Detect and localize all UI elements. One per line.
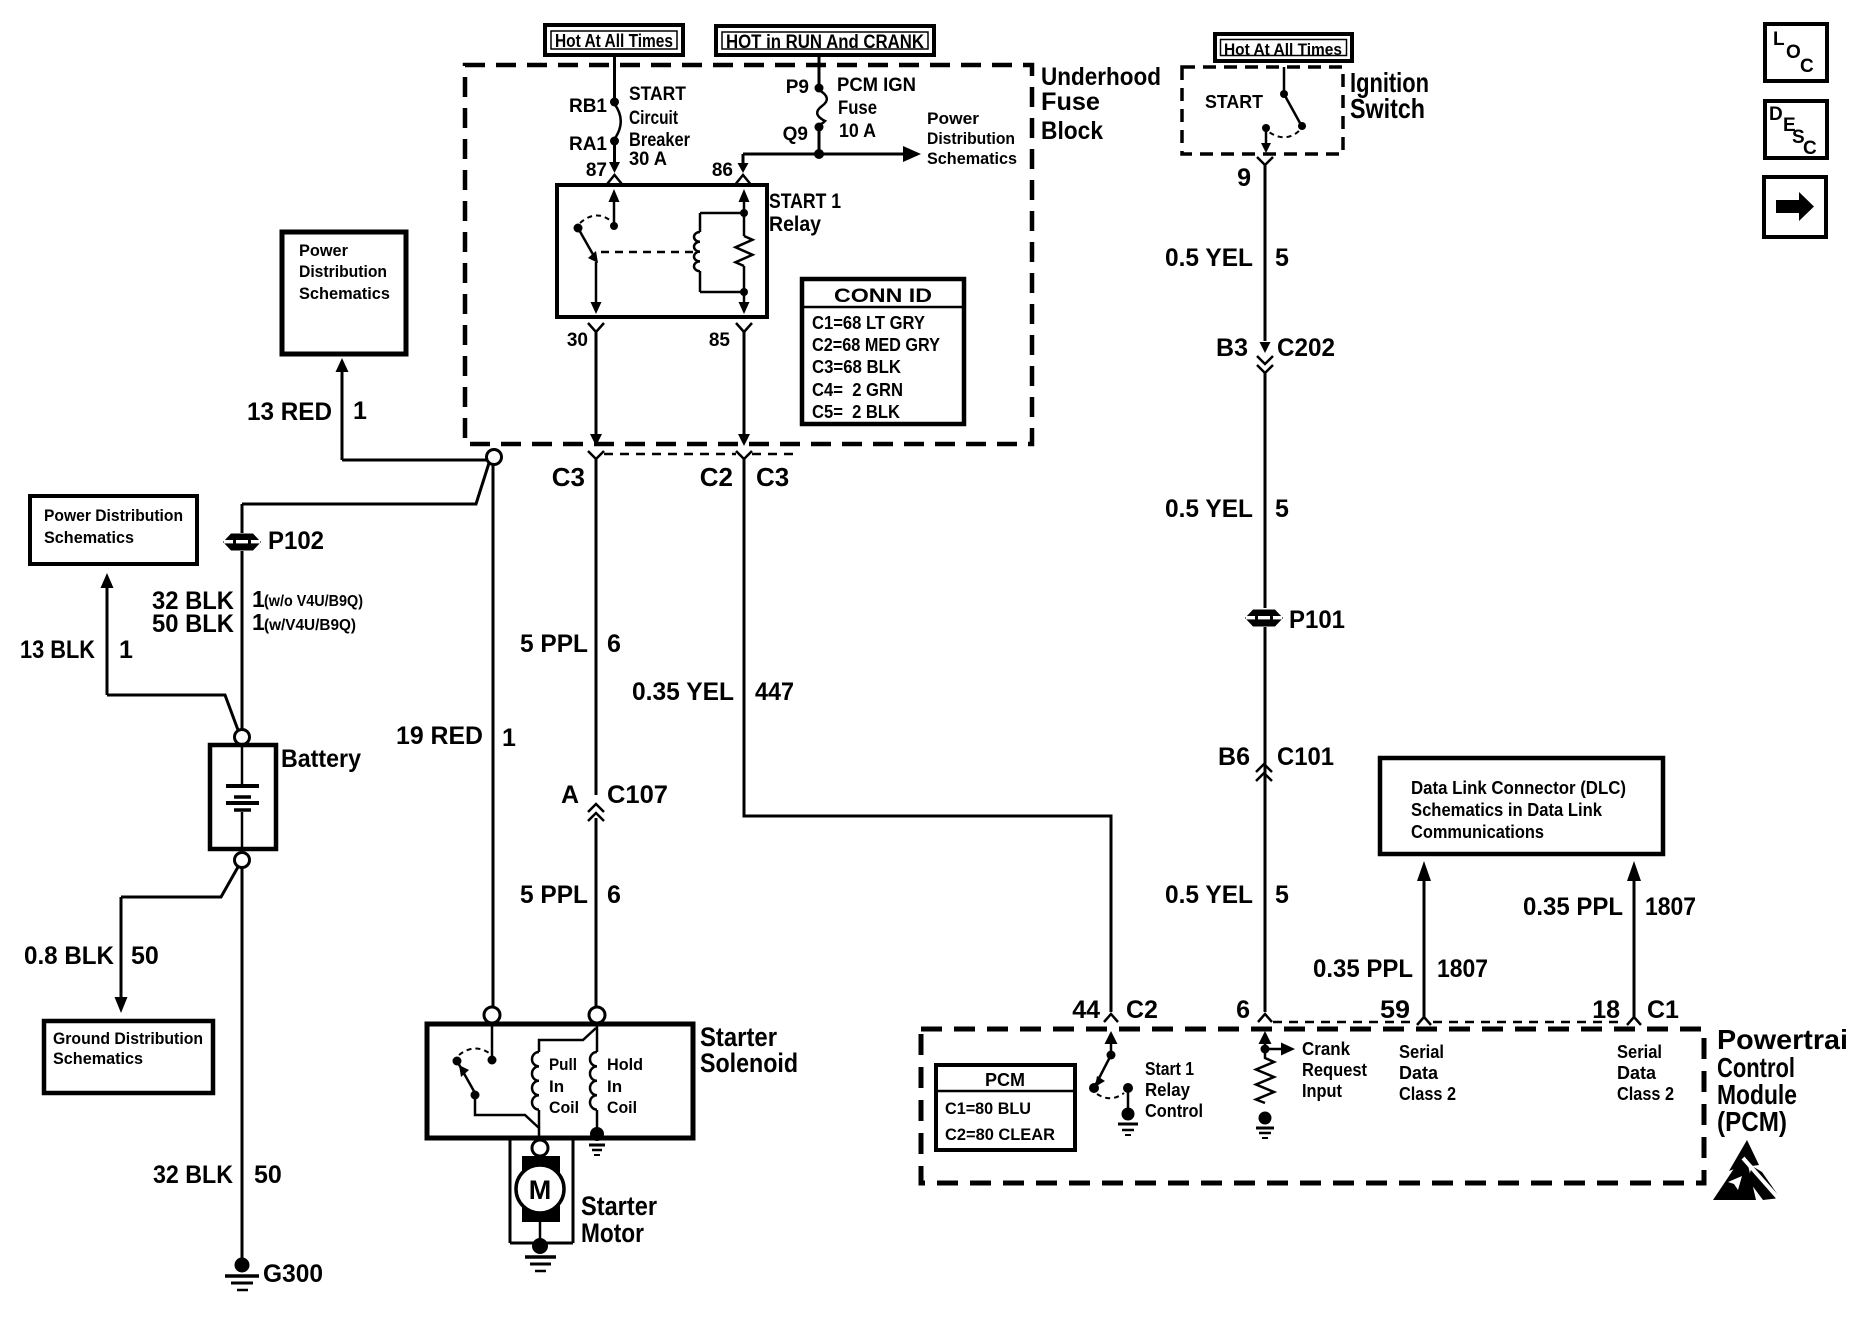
connector P102 [223,527,324,555]
svg-text:Circuit: Circuit [629,108,679,129]
wire: battery negative branch to 0.8 BLK arrow [24,867,238,1013]
relay internal: wire to pin 30 [595,262,598,303]
svg-text:Distribution: Distribution [299,262,387,281]
PCM internal: serial data class 2 (pin 18) [1617,1042,1674,1104]
connector plane dashed line C3-C2 [604,453,736,456]
wire label: 32 BLK 1 (w/o V4U/B9Q) / 50 BLK 1 (w/V4U/B9Q) [152,586,363,638]
svg-text:0.5 YEL: 0.5 YEL [1165,244,1253,272]
svg-text:C3: C3 [756,462,789,492]
svg-text:(w/o V4U/B9Q): (w/o V4U/B9Q) [264,593,363,610]
connector pin 9 fork [1257,157,1273,165]
wire: relay pin 30 down to connector C3 [595,332,598,434]
svg-text:C: C [1800,56,1814,77]
svg-text:Schematics: Schematics [927,149,1017,168]
ground G300 [225,1258,323,1291]
svg-text:6: 6 [1236,996,1250,1024]
svg-text:0.5 YEL: 0.5 YEL [1165,495,1253,523]
svg-text:A: A [561,781,579,809]
svg-text:START: START [1205,92,1263,112]
DESC nav box [1765,101,1827,159]
relay internal: switch pivot [574,224,583,233]
svg-text:C: C [1803,138,1817,159]
svg-text:C101: C101 [1277,743,1334,771]
svg-text:Schematics: Schematics [53,1049,143,1068]
svg-text:Pull: Pull [549,1055,577,1074]
svg-text:Powertrai: Powertrai [1717,1024,1848,1055]
svg-text:C107: C107 [607,781,668,809]
solenoid internal: hold in coil [590,1023,643,1141]
battery [210,745,361,849]
connector A / C107 [561,781,668,821]
svg-text:0.8 BLK: 0.8 BLK [24,942,114,970]
wire: fuse to junction [818,129,821,154]
svg-text:Fuse: Fuse [838,98,877,119]
connector P101 [1245,606,1345,634]
svg-text:85: 85 [709,330,731,351]
wire: 0.5 YEL C202 to P101 [1264,373,1267,608]
svg-text:C3=68 BLK: C3=68 BLK [812,357,901,377]
svg-text:Schematics: Schematics [299,284,390,303]
svg-text:C2: C2 [700,462,733,492]
svg-text:9: 9 [1237,164,1251,192]
svg-text:C202: C202 [1277,334,1335,362]
svg-text:19 RED: 19 RED [396,722,483,750]
svg-text:Breaker: Breaker [629,130,691,151]
svg-text:Power: Power [299,241,348,260]
svg-text:Hold: Hold [607,1055,643,1074]
connector B3 / C202 [1216,334,1335,373]
label box: HOT in RUN And CRANK [716,26,934,55]
svg-text:HOT in RUN And CRANK: HOT in RUN And CRANK [726,32,924,53]
svg-text:30: 30 [567,330,588,351]
box: Data Link Connector (DLC) [1380,758,1663,854]
svg-text:1: 1 [353,397,367,425]
solenoid internal: switch [453,1023,540,1138]
PCM table [936,1065,1075,1150]
wire: 13 BLK arrow to Power Distribution Schematics box [20,573,238,730]
svg-text:RB1: RB1 [569,96,607,117]
relay U: START 1 Relay box [557,185,767,317]
svg-text:Ground Distribution: Ground Distribution [53,1029,203,1048]
svg-text:Relay: Relay [1145,1080,1190,1100]
svg-text:5 PPL: 5 PPL [520,630,588,658]
svg-text:30 A: 30 A [629,149,667,170]
svg-text:D: D [1769,104,1783,125]
circuit breaker RB1/RA1 START Circuit Breaker 30 A [569,84,691,170]
pin 85 connector below relay [736,323,752,332]
ground below hold in coil [589,1145,605,1155]
relay internal: linkage dashed [601,251,697,254]
Powertrain Control Module (PCM) label [1717,1024,1848,1137]
svg-text:6: 6 [607,881,621,909]
svg-text:C5= 2 BLK: C5= 2 BLK [812,402,900,422]
wire: breaker to relay pin 87 [613,143,616,165]
label box: Hot At All Times (left) [545,25,683,55]
connector pin 6 [1236,996,1272,1024]
svg-text:59: 59 [1380,996,1410,1024]
svg-text:Schematics in Data Link: Schematics in Data Link [1411,800,1603,820]
svg-text:M: M [529,1175,552,1205]
svg-text:50 BLK: 50 BLK [152,610,234,638]
next-page arrow nav box [1764,177,1826,237]
relay internal: switch blade [578,228,595,258]
connector pin 18 / C1 [1592,996,1679,1025]
connector pin 59 [1380,996,1431,1025]
svg-text:1807: 1807 [1437,955,1488,983]
svg-text:O: O [1786,42,1801,63]
svg-text:Control: Control [1145,1101,1203,1121]
node: solenoid S terminal [589,1007,605,1023]
pin 87 connector [606,175,624,186]
relay internal: pin 87 stub [613,201,616,226]
node: junction at fuse output [814,149,824,159]
svg-text:Class 2: Class 2 [1617,1084,1674,1104]
relay internal: pin 86 stub with resistor [743,201,746,213]
svg-text:(PCM): (PCM) [1717,1106,1787,1137]
wire: junction down to relay pin 86 [742,154,745,166]
svg-text:5 PPL: 5 PPL [520,881,588,909]
wire: relay pin 85 down to connector C2 [743,332,746,434]
Power Distribution Schematics text (top right of fuse) [927,109,1017,168]
svg-text:18: 18 [1592,996,1620,1024]
svg-text:Coil: Coil [549,1098,579,1117]
wire: 13 RED arrow to Power Distribution Schematics box [247,358,367,460]
wire: 0.5 YEL ignition to C202 [1264,165,1267,341]
svg-text:87: 87 [586,160,607,181]
svg-text:5: 5 [1275,495,1289,523]
pin 86 connector [734,175,752,186]
svg-text:Fuse: Fuse [1041,88,1100,116]
box: Power Distribution Schematics (left) [30,496,197,564]
svg-text:RA1: RA1 [569,134,607,155]
svg-text:32 BLK: 32 BLK [153,1161,233,1189]
node: solenoid battery terminal [484,1007,500,1023]
svg-text:P101: P101 [1289,606,1345,634]
svg-text:0.35 PPL: 0.35 PPL [1523,893,1623,921]
svg-text:Request: Request [1302,1060,1367,1080]
svg-text:10 A: 10 A [839,121,876,142]
svg-text:0.35 PPL: 0.35 PPL [1313,955,1413,983]
wire: horizontal 13 RED to junction [342,457,493,460]
svg-text:P102: P102 [268,527,324,555]
PCM internal: serial data class 2 (pin 59) [1399,1042,1456,1104]
svg-text:P9: P9 [786,77,809,98]
svg-text:Block: Block [1041,117,1103,145]
node: splice junction [487,450,502,465]
wire: serial data 59 to DLC [1313,861,1488,1017]
svg-text:1: 1 [502,724,516,752]
svg-text:5: 5 [1275,244,1289,272]
wire: 5 PPL from C107 down to solenoid [595,818,598,1007]
box: Power Distribution Schematics (top left) [282,232,406,354]
svg-text:PCM: PCM [985,1070,1025,1090]
ignition switch dashed box [1182,67,1343,154]
svg-text:C1=68 LT GRY: C1=68 LT GRY [812,313,925,333]
connector C2 fork [736,451,752,459]
wire: P101 to C101 [1264,627,1267,790]
wire: 0.35 YEL from C2/C3 to PCM pin 44 [744,459,1111,1012]
wire: serial data 18 to DLC [1523,861,1696,1017]
svg-text:50: 50 [131,942,159,970]
svg-text:Power: Power [927,109,979,128]
connector pin 44 / C2 [1072,996,1158,1024]
PCM internal: crank request input [1256,1031,1367,1138]
svg-text:START 1: START 1 [769,190,841,213]
svg-text:0.5 YEL: 0.5 YEL [1165,881,1253,909]
ignition switch internals: START contact [1205,67,1306,153]
connector C3 fork [588,451,604,459]
PCM dashed box [921,1029,1704,1183]
wire: feed from HOT in RUN And CRANK to fuse [818,55,821,85]
svg-text:Start 1: Start 1 [1145,1059,1194,1079]
svg-text:Data: Data [1617,1063,1657,1083]
fuse: PCM IGN Fuse 10 A (P9/Q9) [783,75,916,145]
svg-text:Input: Input [1302,1081,1342,1101]
svg-text:0.35 YEL: 0.35 YEL [632,678,734,706]
wire: feed from Hot At All Times to breaker [613,57,616,100]
svg-text:86: 86 [712,160,733,181]
svg-text:(w/V4U/B9Q): (w/V4U/B9Q) [264,617,356,634]
label box: Hot At All Times (right) [1215,34,1352,61]
svg-text:Distribution: Distribution [927,129,1015,148]
connector plane dashed line pin6-pin18 [1273,1021,1415,1024]
starter motor [510,1138,657,1248]
svg-text:Power Distribution: Power Distribution [44,506,183,525]
wire: 19 RED junction down to starter solenoid [492,464,495,1007]
svg-text:Data: Data [1399,1063,1439,1083]
svg-text:Starter: Starter [581,1191,657,1221]
svg-text:Q9: Q9 [783,124,808,145]
svg-text:Relay: Relay [769,213,821,236]
solenoid internal: pull in coil [532,1028,596,1128]
wire: battery negative down to G300 (32 BLK 50) [241,868,244,1262]
svg-text:Class 2: Class 2 [1399,1084,1456,1104]
wire: P102 to battery [241,551,244,729]
svg-text:Switch: Switch [1350,93,1425,124]
svg-text:B6: B6 [1218,743,1250,771]
wire: 5 PPL from C3 down to C107 [595,459,598,795]
svg-text:Crank: Crank [1302,1039,1351,1059]
svg-text:Hot At All Times: Hot At All Times [555,31,673,51]
LOC nav box [1765,24,1827,81]
pin 30 connector below relay [588,323,604,332]
svg-text:Coil: Coil [607,1098,637,1117]
svg-text:1807: 1807 [1645,893,1696,921]
svg-text:Hot At All Times: Hot At All Times [1224,40,1342,59]
svg-text:In: In [549,1077,564,1096]
svg-text:Communications: Communications [1411,822,1544,842]
svg-text:Schematics: Schematics [44,528,134,547]
svg-text:C3: C3 [552,462,585,492]
svg-text:13 BLK: 13 BLK [20,636,95,664]
starter solenoid box [427,1024,693,1138]
svg-text:B3: B3 [1216,334,1248,362]
wire: junction to battery feed (32/50 BLK) [242,463,489,504]
svg-text:Battery: Battery [281,745,361,773]
ground below starter motor [525,1238,556,1271]
Underhood Fuse Block label [1041,63,1161,145]
svg-text:13 RED: 13 RED [247,398,332,426]
svg-text:C2=68 MED GRY: C2=68 MED GRY [812,335,940,355]
svg-text:5: 5 [1275,881,1289,909]
svg-text:START: START [629,84,686,105]
wire: junction to Power Distribution Schematics arrow [743,153,906,156]
box: Ground Distribution Schematics [44,1021,213,1093]
svg-text:C4= 2 GRN: C4= 2 GRN [812,380,903,400]
svg-text:C1: C1 [1647,996,1679,1024]
svg-text:C2: C2 [1126,996,1158,1024]
svg-text:G300: G300 [263,1260,323,1288]
PCM internal: start 1 relay control driver [1089,1031,1203,1135]
svg-text:Motor: Motor [581,1218,644,1248]
svg-text:C1=80 BLU: C1=80 BLU [945,1099,1031,1118]
svg-text:Solenoid: Solenoid [700,1048,798,1078]
wire: 0.5 YEL C101 to PCM pin 6 [1264,781,1267,1012]
svg-text:44: 44 [1072,996,1100,1024]
Underhood Fuse Block dashed box [465,65,1032,444]
svg-text:50: 50 [254,1161,282,1189]
svg-text:Serial: Serial [1399,1042,1444,1062]
connector B6 / C101 [1218,743,1334,781]
svg-text:C2=80 CLEAR: C2=80 CLEAR [945,1125,1055,1144]
relay internal: coil branch [699,213,702,232]
svg-text:1: 1 [119,636,133,664]
svg-text:Serial: Serial [1617,1042,1662,1062]
svg-text:CONN ID: CONN ID [834,286,932,307]
svg-text:PCM IGN: PCM IGN [837,75,916,96]
node: battery positive terminal [235,730,250,745]
svg-text:447: 447 [755,678,794,706]
CONN ID table [802,279,964,424]
svg-text:In: In [607,1077,622,1096]
svg-text:6: 6 [607,630,621,658]
svg-text:L: L [1773,29,1785,50]
svg-text:Underhood: Underhood [1041,63,1161,91]
relay internal: wire to pin 85 [743,292,746,303]
ESD symbol [1713,1140,1780,1200]
svg-text:Data Link Connector (DLC): Data Link Connector (DLC) [1411,778,1626,798]
node: battery negative terminal [235,853,250,868]
